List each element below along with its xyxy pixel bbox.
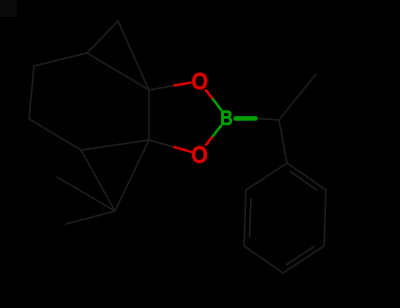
bold bond B-Calpha (green bar) — [234, 116, 258, 121]
wire bond wedge-end to Calpha — [258, 118, 280, 120]
wire bond Calpha-phenyl C1 — [279, 120, 287, 163]
wire red half of bond O1-B — [206, 90, 213, 99]
wire bridge apex-V4 — [81, 150, 115, 211]
wire ring edge V3-V4 — [29, 119, 81, 150]
benzene double bond 3 — [250, 199, 251, 237]
watermark corner square — [0, 0, 17, 17]
svg-text:B: B — [220, 106, 233, 130]
wire ring edge V1-V2 — [34, 53, 87, 66]
wire bond V1-peak — [87, 21, 118, 53]
boron half-bonds (green) — [213, 99, 221, 136]
wire gray half of bond O1-Ctop — [149, 86, 174, 91]
svg-text:O: O — [191, 67, 208, 95]
wire green half of bond B-O2 — [213, 126, 221, 136]
svg-text:O: O — [191, 141, 208, 169]
wire bond Ctop-Cbot — [148, 90, 150, 140]
wire gray half of bond O2-Cbot — [149, 140, 174, 147]
wire bond peak-Ctop — [118, 21, 149, 90]
benzene double bond 1 — [290, 172, 317, 190]
wire ring edge V4-Cbot — [81, 140, 149, 150]
benzene ring — [244, 163, 326, 273]
wire methyl apex-Me2 — [66, 211, 115, 224]
benzene double bond 2 — [287, 246, 315, 264]
wire bond V1-Ctop — [87, 53, 149, 90]
wire red half of bond O2-B — [206, 136, 213, 145]
wire red half of bond O2-Cbot — [174, 147, 191, 152]
wire bridge apex-Cbot — [115, 140, 149, 211]
wire methyl apex-Me1 — [57, 177, 115, 211]
atom label O1 (top oxygen) — [191, 67, 208, 95]
wire methyl on Calpha — [279, 74, 316, 120]
wire ring edge V2-V3 — [29, 66, 34, 119]
wire green half of bond B-O1 — [213, 99, 221, 110]
pinane bicyclic carbon skeleton (left) — [29, 21, 174, 224]
atom label O2 (bottom oxygen) — [191, 141, 208, 169]
right side skeleton: alpha carbon, methyl, phenyl — [244, 74, 326, 273]
wire red half of bond O1-Ctop — [174, 83, 190, 86]
oxygen half-bonds (red) — [174, 83, 213, 152]
atom label B (boron) — [220, 106, 233, 130]
